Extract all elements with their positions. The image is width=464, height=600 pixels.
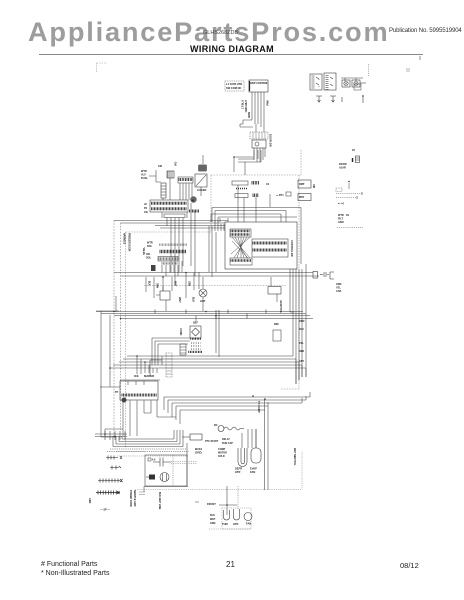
valve block component blob: [151, 265, 156, 271]
svg-text:HARNESS: HARNESS: [123, 233, 126, 245]
svg-text:FAN: FAN: [246, 522, 251, 526]
S8 lever: [156, 286, 163, 295]
svg-text:HTR: HTR: [233, 522, 238, 526]
wire board bottom bus: [96, 311, 119, 437]
valve block pin row light: [160, 244, 187, 246]
svg-text:WHT NEUTRAL: WHT NEUTRAL: [293, 448, 296, 466]
stray mark pair: [406, 69, 410, 71]
defrost thermostat symbol: [192, 328, 200, 336]
svg-text:EVAP: EVAP: [250, 467, 257, 471]
title: [0, 44, 464, 54]
wire lamp drops: [163, 272, 203, 311]
door switch plunger: [255, 142, 259, 146]
wire left bus solid stub: [115, 296, 117, 312]
wire probe feeders: [195, 486, 227, 515]
board header J3 pins2: [231, 233, 249, 236]
svg-text:WHT: WHT: [178, 297, 181, 303]
wire junction cluster: [215, 218, 228, 231]
junction dot 6: [252, 395, 254, 397]
junction dot 9: [136, 355, 138, 357]
svg-text:AUGER: AUGER: [197, 188, 206, 192]
compressor motor circle: [160, 473, 169, 482]
aux pin row ticks: [179, 178, 192, 181]
S6 contacts: [330, 77, 333, 86]
footer left: [41, 561, 97, 568]
svg-text:WHT: WHT: [174, 281, 176, 287]
relay R5 marks: [252, 181, 258, 185]
junction dot 13: [114, 436, 116, 438]
small box RT1: [286, 192, 291, 196]
wire board right bus: [290, 264, 306, 384]
wire to lamps: [341, 78, 363, 81]
dashed link row1: [336, 193, 362, 195]
dashed bottom edge: [117, 455, 188, 457]
lamp L3 mark: [354, 81, 358, 85]
svg-text:SERVICE GRD: SERVICE GRD: [133, 490, 136, 507]
svg-text:GRD: GRD: [88, 498, 91, 504]
wire bus drop c: [171, 277, 173, 291]
ice motor M1: [190, 196, 196, 202]
svg-text:FREEZER DOOR: FREEZER DOOR: [127, 233, 129, 252]
junction dot 11: [233, 156, 235, 158]
dashed compartment left step: [125, 175, 211, 232]
terminal chain row1: [106, 456, 122, 460]
svg-text:MAKER: MAKER: [144, 374, 154, 378]
wire bus to bottom right: [265, 312, 295, 490]
wire upper horizontals: [211, 208, 301, 218]
board header J3: [230, 229, 251, 237]
connector hatch strip: [166, 353, 172, 377]
valve block lower box ticks: [159, 257, 177, 260]
svg-text:ADAPTIVE: ADAPTIVE: [279, 300, 282, 313]
wire icemaker left: [100, 386, 120, 388]
svg-text:BRN: BRN: [247, 112, 251, 118]
svg-text:BLK: BLK: [148, 281, 150, 286]
svg-text:BLK: BLK: [210, 514, 215, 517]
svg-text:ORN WHT: ORN WHT: [244, 100, 248, 113]
stray mark top right: [419, 56, 421, 60]
start relay dark: [149, 475, 155, 480]
dispenser control board U10: [249, 80, 268, 92]
svg-text:THM: THM: [222, 522, 228, 526]
door switch S3: [252, 140, 266, 148]
junction dot 5: [205, 311, 207, 313]
svg-text:VALVE: VALVE: [142, 248, 145, 256]
watermark: [28, 16, 389, 48]
small symbol: [148, 458, 151, 461]
svg-text:GRN: GRN: [210, 522, 216, 525]
probe circle: [244, 513, 252, 521]
svg-text:⎓ RT1: ⎓ RT1: [276, 193, 284, 197]
wire top-left corner bracket: [97, 63, 108, 72]
valve coil K1: [167, 171, 174, 178]
light switch S5 contacts: [316, 77, 319, 87]
wire bus tick crossings: [155, 310, 266, 320]
junction dot 12: [104, 433, 106, 435]
junction dot 8: [109, 367, 111, 369]
connector P12 ticks: [253, 132, 265, 139]
wire compartment bottom: [144, 487, 188, 493]
FF lamp L4: [199, 289, 207, 297]
wire left bus horizontals: [114, 220, 228, 228]
dashed probe feeder: [237, 486, 239, 509]
dashed compartment right edge: [280, 150, 301, 389]
dashed compartment top edge: [211, 174, 301, 176]
light switch S5: [310, 74, 322, 90]
strip lower: [164, 214, 185, 218]
wire jog upper: [243, 120, 255, 124]
connector strip pins row2: [152, 207, 187, 210]
svg-text:CONTROL BD: CONTROL BD: [290, 240, 293, 257]
wire relay drops: [238, 185, 270, 222]
door ajar switch S9 plunger: [352, 158, 354, 162]
svg-text:CN: CN: [144, 211, 148, 214]
terminal chain row3: [98, 479, 123, 483]
svg-text:CM: CM: [158, 165, 162, 168]
svg-text:DISP CONTROL: DISP CONTROL: [250, 82, 269, 85]
door ajar switch S9 slots: [356, 158, 360, 160]
svg-text:RELAY: RELAY: [222, 438, 230, 441]
relay R7 marks: [253, 194, 258, 198]
wire left drop: [109, 315, 111, 387]
svg-text:BLK-WHT LINE: BLK-WHT LINE: [158, 492, 161, 510]
valve coil K2 tall: [161, 183, 166, 198]
relay R5 box: [232, 181, 248, 185]
svg-text:AJAR: AJAR: [339, 167, 346, 170]
auger motor gearbox: [195, 174, 207, 187]
wire icemaker drop horiz: [105, 413, 176, 436]
defrost thermostat box: [190, 326, 201, 338]
terminal block TB1: [313, 272, 318, 279]
link end tick: [357, 192, 362, 199]
S6 text: [326, 76, 329, 90]
svg-text:ICE: ICE: [134, 374, 139, 378]
auger motor diagonal: [196, 175, 206, 186]
svg-text:DEF: DEF: [274, 323, 279, 326]
connector hatch marks: [166, 356, 172, 374]
svg-text:CAB: CAB: [336, 290, 341, 293]
pin block right: [190, 210, 199, 213]
dispenser board edge tick: [249, 81, 251, 91]
board header J4 pins: [231, 259, 251, 262]
wire antenna with dot: [348, 183, 350, 189]
dashes below: [139, 492, 145, 495]
thermostat dot grid r2: [191, 348, 201, 350]
relay R7 box: [235, 194, 248, 198]
wire jog lower: [240, 124, 256, 132]
svg-text:AIR: AIR: [312, 184, 315, 188]
wire bus lower horizontal 2: [121, 316, 314, 320]
svg-text:TP: TP: [115, 391, 119, 394]
sensor box: [180, 344, 186, 355]
wire branch left: [234, 157, 253, 172]
capacitor C5 symbol: [320, 272, 329, 277]
pin field row1: [253, 242, 286, 245]
wire icemaker drops: [123, 401, 157, 437]
wire motor drops: [191, 203, 195, 276]
wire timer leads: [271, 277, 277, 302]
freezer lamp L2: [342, 80, 350, 87]
svg-text:P2: P2: [144, 207, 148, 210]
svg-text:C2: C2: [266, 183, 270, 186]
probe bottom dash: [209, 528, 251, 530]
overload box: [190, 434, 202, 440]
wire loops feeders: [242, 429, 256, 448]
connector J1 dispenser harness label box: [225, 81, 244, 91]
thermostat terminals: [191, 338, 201, 340]
wire door switch leads: [254, 148, 265, 162]
svg-text:DEFR: DEFR: [235, 467, 242, 471]
svg-text:VIO: VIO: [175, 162, 178, 166]
icemaker motor blob: [122, 398, 127, 403]
light switch S5 text: [312, 76, 315, 88]
wire bus drop e: [193, 273, 195, 291]
connector stub box: [354, 84, 361, 90]
compressor compartment box: [145, 455, 187, 486]
dashed compartment left edge: [125, 232, 127, 448]
dashed bottom rail: [135, 489, 302, 491]
svg-text:DUAL: DUAL: [141, 177, 148, 180]
terminal chain row2: [110, 466, 121, 470]
timer lower comp: [273, 330, 281, 341]
wire right bus bend verticals: [293, 312, 306, 384]
overload lead: [182, 436, 190, 438]
svg-text:DEF: DEF: [193, 322, 198, 325]
dashed wires right: [171, 462, 197, 464]
svg-text:4.5: 4.5: [152, 459, 156, 462]
probe loop2: [234, 509, 240, 520]
svg-text:BLU: BLU: [299, 328, 304, 331]
valve coil K2 hatch: [161, 186, 166, 195]
wire icemaker feeders: [137, 356, 157, 374]
wire board left drops: [209, 218, 220, 277]
wire bus drop d: [185, 273, 187, 299]
auger motor B1 hatch: [199, 166, 206, 170]
svg-text:BLK: BLK: [192, 297, 195, 302]
svg-text:L1 N DR HTR: L1 N DR HTR: [226, 82, 242, 86]
date: [400, 561, 419, 570]
wire bus lower horizontals: [96, 312, 310, 316]
wire terminal row crosses: [95, 431, 127, 440]
damper control box: [298, 180, 311, 188]
junction dot 4: [185, 272, 187, 274]
wire left bus verticals dashed: [114, 220, 121, 437]
dashed mid rail: [117, 451, 145, 453]
svg-text:DOOR SW: DOOR SW: [269, 134, 273, 147]
wire bus drop b: [153, 277, 155, 298]
svg-text:FAN: FAN: [250, 470, 255, 474]
svg-text:ORN: ORN: [299, 320, 305, 323]
icemaker box: [120, 381, 158, 400]
lamp L4 cross: [200, 290, 206, 296]
connector P12 dispenser door: [250, 132, 268, 139]
wire lower horizontal drops: [302, 392, 310, 403]
svg-text:ORN: ORN: [156, 283, 158, 288]
valve block lower box: [158, 257, 178, 262]
wire aux drops: [180, 183, 192, 200]
defrost heater inner: [241, 448, 245, 464]
wire strip drops: [162, 212, 187, 286]
page number: [226, 560, 235, 569]
run capacitor plates: [153, 458, 171, 467]
terminal chain row4: [96, 491, 120, 495]
junction dot 2: [120, 318, 122, 320]
board pin field: [252, 239, 288, 257]
svg-text:ASM: ASM: [338, 221, 344, 224]
svg-text:DMP: DMP: [299, 183, 305, 186]
wire right bus bends: [110, 356, 306, 368]
compressor wavy wire: [224, 427, 244, 430]
svg-text:MTR: MTR: [299, 196, 304, 199]
dashed right vertical: [301, 452, 303, 489]
wire corner nest: [152, 338, 190, 365]
wire comp drops: [248, 429, 256, 448]
svg-text:J2: J2: [144, 203, 147, 206]
icemaker top line: [120, 379, 160, 381]
publication number: [389, 27, 462, 34]
aux pin row: [178, 177, 193, 183]
timer T1 box: [268, 287, 281, 295]
wire auger lead: [201, 155, 203, 196]
svg-text:YEL: YEL: [299, 342, 304, 345]
wire lower horizontal left corners: [164, 397, 180, 424]
svg-text:#5: #5: [352, 148, 355, 152]
svg-text:RUN CAP: RUN CAP: [222, 442, 233, 445]
wire dispenser leads: [252, 92, 264, 132]
svg-text:SW COM NC: SW COM NC: [226, 86, 242, 90]
fuse F1 symbol: [316, 96, 322, 102]
svg-text:RED: RED: [299, 350, 304, 353]
wire lamp right stub: [360, 82, 366, 84]
compartment divider: [172, 455, 174, 486]
freezer light switch S6: [324, 73, 336, 90]
door ajar switch S9 body: [356, 156, 360, 163]
lamp L3 cross: [355, 82, 358, 85]
svg-text:WHT: WHT: [210, 518, 216, 521]
pin field row2: [253, 249, 286, 252]
junction dot 1: [113, 311, 115, 313]
compressor motor bars: [163, 474, 167, 481]
wire dashed drop: [368, 64, 370, 76]
wire bus right extension: [114, 273, 319, 277]
terminal dot: [362, 95, 364, 97]
svg-text:SOL: SOL: [146, 257, 152, 260]
svg-text:◂ · ▸|: ◂ · ▸|: [337, 201, 344, 205]
ribbon crossover wires: [231, 237, 250, 258]
junction dot 7: [264, 398, 266, 400]
defrost heater loop: [238, 448, 247, 467]
lamp L2 cross: [345, 82, 348, 85]
wire jog from dispenser: [238, 150, 261, 175]
terminal T3: [341, 97, 343, 102]
wire valve block drops: [162, 261, 182, 276]
rule: [39, 54, 423, 55]
icemaker inner marks: [128, 381, 144, 385]
wire corner nest lower: [150, 356, 162, 376]
mullion heater switch S8: [160, 291, 170, 300]
terminal T4 with dot: [362, 95, 364, 103]
svg-text:PNK: PNK: [266, 100, 270, 106]
wire upper horizontal bends: [211, 208, 301, 265]
wire right verticals long: [186, 443, 188, 486]
svg-text:TO COMP: TO COMP: [257, 401, 260, 413]
valve block pin row dense: [160, 250, 186, 253]
wire bus drop a: [145, 277, 147, 292]
svg-text:PTC START: PTC START: [205, 440, 219, 443]
valve block bottom row: [162, 262, 177, 264]
wire nested ends: [113, 430, 183, 447]
thermostat bottom row: [189, 351, 202, 353]
connector strip P2: [150, 200, 188, 212]
freezer fan loop: [251, 448, 261, 463]
svg-text:GRY: GRY: [299, 360, 304, 363]
svg-text:CONN: CONN: [179, 328, 182, 336]
wire valve leads: [149, 170, 170, 200]
dashed label box: [336, 188, 342, 192]
lamp L2 mark: [344, 81, 348, 85]
fuse F2 symbol: [330, 96, 336, 102]
junction dot 10: [144, 361, 146, 363]
junction dot 15: [162, 276, 164, 278]
board header J4: [230, 258, 252, 265]
dashed link row2: [336, 197, 357, 199]
start relay lead: [146, 476, 149, 478]
svg-text:GRN: GRN: [188, 281, 190, 286]
wire thermostat feeders: [196, 316, 219, 358]
probe loop1: [224, 510, 230, 520]
svg-text:FROST: FROST: [207, 502, 216, 506]
svg-text:R1: R1: [346, 214, 350, 217]
svg-text:RC: RC: [214, 424, 218, 427]
svg-text:POWER CORD: POWER CORD: [129, 490, 132, 507]
damper lower box: [298, 194, 311, 201]
connector strip pins row1: [152, 202, 187, 205]
probe dashed box: [222, 508, 251, 529]
wire antenna dot: [348, 181, 350, 183]
dashed underline bottom: [337, 227, 363, 229]
dashed compartment mid rail: [144, 285, 287, 287]
valve coil K1 hatch: [168, 171, 172, 178]
svg-text:GRD: GRD: [195, 451, 203, 455]
junction dot 14: [226, 504, 228, 506]
board header J3 pins: [231, 230, 249, 233]
thermostat dot grid r1: [191, 343, 201, 346]
svg-text:SOL: SOL: [147, 245, 153, 248]
compressor run circle: [218, 426, 224, 432]
ground G1 bracket: [330, 272, 334, 279]
svg-text:— SP —: — SP —: [100, 508, 110, 512]
resistor R6 hatch: [236, 188, 248, 190]
model number: [203, 30, 238, 36]
fresh food lamp L3: [352, 80, 360, 87]
wire lower horizontals: [164, 397, 310, 410]
svg-text:OVLD: OVLD: [218, 455, 225, 458]
wire nested bottoms: [113, 439, 183, 447]
wire probe horiz: [219, 504, 237, 506]
main control board outline: [225, 222, 297, 269]
wire nested bottoms dashed: [107, 449, 189, 452]
junction dot 3: [215, 315, 217, 317]
icemaker pin row: [122, 394, 156, 397]
auger motor B1 body: [198, 165, 207, 172]
svg-text:HTR: HTR: [235, 470, 240, 474]
sensor hatch: [180, 347, 186, 353]
